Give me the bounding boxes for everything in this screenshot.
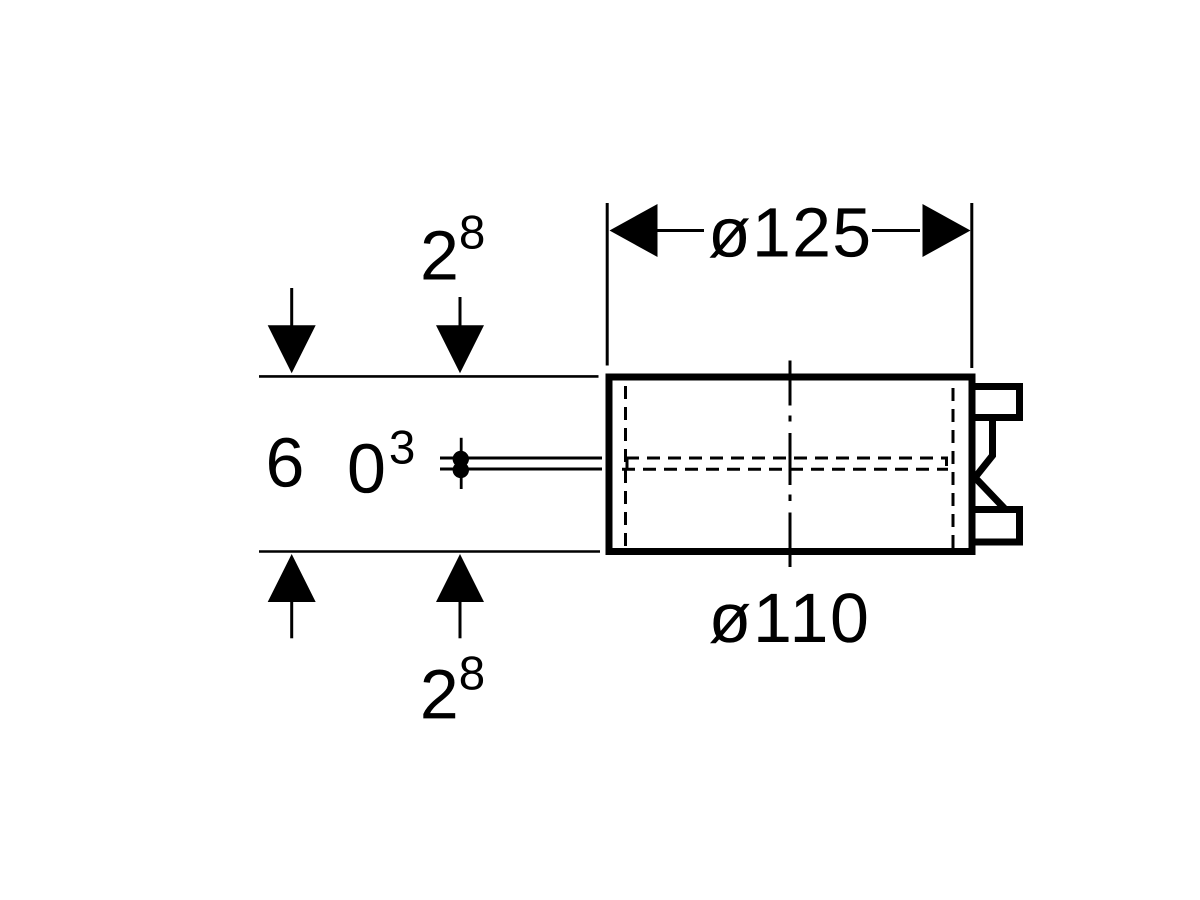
up arrow right head <box>436 554 484 602</box>
dim o125 extension line left <box>606 203 609 366</box>
hidden edge dashed vertical right <box>952 388 955 549</box>
pipe line lower <box>440 468 602 471</box>
pipe tick <box>460 438 463 489</box>
down arrow left stem <box>290 288 293 327</box>
up arrow left head <box>268 554 316 602</box>
centre line dot 2 <box>789 495 792 502</box>
down arrow right stem <box>459 297 462 327</box>
label 0 sup 3 <box>350 430 414 493</box>
up arrow left stem <box>290 601 293 638</box>
dim o125 line right <box>872 229 920 232</box>
label 2 sup 8 bottom <box>423 656 483 718</box>
pipe end dot upper <box>453 451 469 467</box>
centre line dot 1 <box>789 416 792 422</box>
down arrow left head <box>268 325 316 373</box>
bottom flange tab <box>975 510 1020 543</box>
label o110 <box>710 593 866 643</box>
groove profile between tabs <box>975 418 1006 510</box>
label 2 sup 8 top <box>424 215 484 279</box>
dim o125 line left <box>656 229 704 232</box>
top flange tab <box>975 387 1020 418</box>
dim o125 extension line right <box>970 203 973 368</box>
centre line segment 3 <box>789 513 792 568</box>
hidden edge dashed vertical left <box>624 386 627 550</box>
wall top reference line <box>259 375 599 378</box>
pipe line upper <box>440 457 602 460</box>
dim o125 label <box>710 208 869 258</box>
hidden bore step left <box>626 459 629 471</box>
dim o125 arrow right <box>923 204 971 257</box>
centre line segment 2 <box>789 433 792 485</box>
hidden bore step right <box>945 457 948 466</box>
label 6 <box>269 438 301 488</box>
sleeve body outline <box>609 377 972 552</box>
dim o125 arrow left <box>610 204 658 257</box>
up arrow right stem <box>459 601 462 638</box>
down arrow right head <box>436 325 484 373</box>
hidden bore dashed horizontal lower <box>622 468 948 471</box>
centre line segment 1 <box>789 361 792 406</box>
pipe end dot lower <box>453 462 469 478</box>
wall bottom reference line <box>259 550 600 553</box>
hidden bore dashed horizontal upper <box>626 457 948 460</box>
